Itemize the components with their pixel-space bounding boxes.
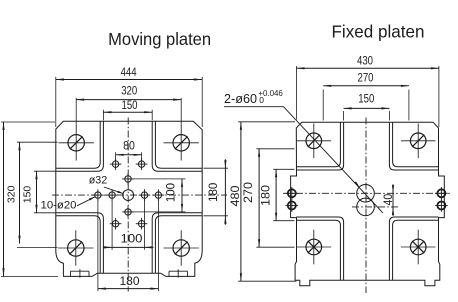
svg-text:150: 150: [122, 100, 138, 112]
svg-text:Fixed platen: Fixed platen: [332, 22, 425, 42]
dim 430 top: [296, 66, 298, 120]
svg-text:ø32: ø32: [89, 175, 108, 187]
svg-text:480: 480: [230, 186, 242, 207]
fixed main centerline vertical: [365, 118, 367, 294]
moving platen bottom pad right: [169, 270, 188, 272]
moving platen bottom pad left: [71, 270, 90, 272]
svg-text:320: 320: [121, 86, 137, 98]
dim 180 right: [204, 167, 229, 169]
svg-text:150: 150: [358, 94, 374, 106]
moving main centerline horizontal: [52, 194, 227, 196]
dim 180 bottom: [97, 200, 99, 292]
dim 150 left: [34, 170, 56, 172]
fixed pocket contour bottom-left: [296, 220, 340, 280]
svg-text:180: 180: [261, 185, 273, 206]
svg-text:270: 270: [358, 73, 374, 85]
dim 100 bottom: [111, 200, 113, 250]
svg-text:320: 320: [6, 185, 18, 203]
fixed tie-bar hole top-right: [410, 133, 426, 149]
dim 180 left: [273, 168, 294, 170]
moving pocket contour bottom-left: [56, 216, 100, 273]
svg-text:270: 270: [243, 182, 255, 203]
fixed locating holes 2-phi60: [357, 185, 375, 203]
dim 270 top: [322, 90, 324, 121]
svg-text:80: 80: [123, 141, 135, 153]
fixed tie-bar hole bottom-right: [410, 239, 426, 255]
svg-text:10-ø20: 10-ø20: [41, 200, 77, 212]
fixed tie-bar hole top-left: [306, 133, 322, 149]
dim 80: [115, 152, 117, 160]
svg-text:180: 180: [208, 183, 220, 202]
moving pocket contour top-right: [155, 121, 202, 168]
moving tie-bar hole top-left: [68, 135, 84, 151]
dim 150 fixed top: [343, 111, 345, 121]
moving tie-bar hole bottom-left: [68, 240, 84, 256]
leader 2-phi60: [224, 106, 284, 108]
moving ejector holes phi20: [95, 192, 101, 198]
fixed platen outline: [291, 122, 445, 286]
moving platen outline: [56, 121, 202, 276]
dim 320 top: [75, 98, 77, 126]
svg-text:Moving platen: Moving platen: [108, 29, 211, 49]
dim 270 left: [256, 148, 294, 150]
dim 40 center: [392, 184, 394, 216]
fixed pocket contour bottom-right: [393, 220, 439, 280]
moving pocket contour bottom-right: [155, 216, 202, 273]
fixed clamp holes right ear: [437, 189, 445, 197]
svg-text:40: 40: [383, 194, 395, 206]
svg-text:444: 444: [121, 67, 138, 79]
svg-text:100: 100: [121, 234, 143, 246]
dim left unlabeled full height: [1, 121, 55, 123]
fixed pocket contour top-left: [296, 122, 340, 167]
svg-text:430: 430: [357, 55, 373, 67]
fixed tie-bar hole bottom-left: [306, 239, 322, 255]
svg-text:2-ø60: 2-ø60: [224, 91, 257, 106]
fixed main centerline horizontal: [283, 192, 451, 194]
svg-text:0: 0: [259, 95, 264, 105]
svg-text:150: 150: [22, 186, 34, 204]
moving main centerline vertical: [127, 118, 129, 292]
dim 480 left: [238, 121, 295, 123]
fixed centerline lower sprue hole: [352, 206, 399, 208]
svg-text:100: 100: [165, 183, 177, 202]
moving pocket contour top-left: [56, 121, 100, 168]
moving tie-bar hole bottom-right: [173, 240, 189, 256]
dim 150 top: [102, 110, 104, 120]
svg-text:180: 180: [120, 276, 140, 288]
fixed pocket contour top-right: [393, 122, 439, 167]
dim 100 right: [130, 178, 186, 180]
moving center hole phi32: [123, 190, 134, 201]
dim 444 top: [55, 77, 57, 127]
moving tie-bar hole top-right: [173, 135, 189, 151]
dim 320 left: [17, 141, 58, 143]
fixed clamp holes left ear: [288, 189, 296, 197]
